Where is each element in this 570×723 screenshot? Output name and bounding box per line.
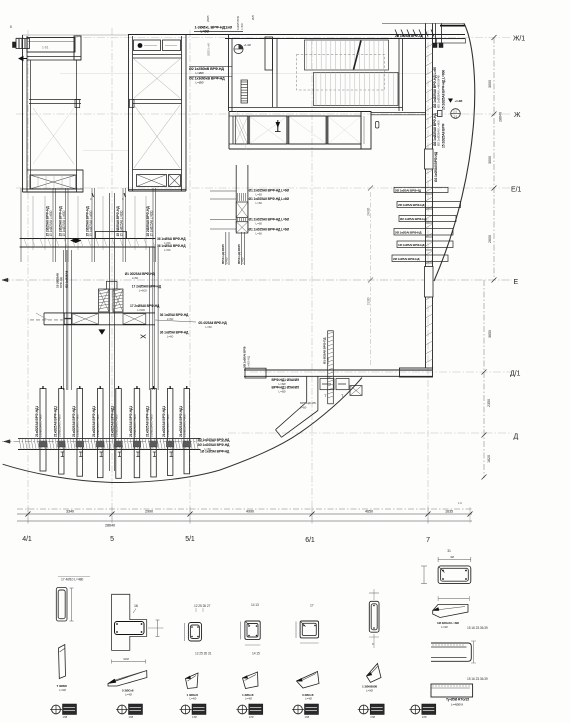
approval stamp 1 circle — [52, 705, 61, 714]
svg-text:17 2хØ5АII ВРФ-НД: 17 2хØ5АII ВРФ-НД — [132, 285, 162, 289]
stair lower flight — [314, 73, 399, 106]
lift shaft A mid wall — [29, 99, 81, 101]
svg-text:12 25 26 31: 12 25 26 31 — [195, 652, 212, 656]
room divider 3 — [326, 116, 328, 144]
svg-text:36 1хØ5АI ВРФ-НД: 36 1хØ5АI ВРФ-НД — [160, 313, 189, 317]
lift shaft A bottom outer lines — [23, 188, 84, 190]
detail 2 rebar loop — [115, 622, 145, 635]
corridor wall to axis 7 — [371, 112, 426, 114]
svg-text:Е/1: Е/1 — [511, 187, 521, 194]
lift shaft A right lower box — [77, 170, 84, 192]
lift shaft B bottom lines — [129, 189, 187, 191]
svg-text:L=4ØØ 8: L=4ØØ 8 — [451, 703, 463, 707]
svg-text:15 1хØ25АII L=600: 15 1хØ25АII L=600 — [120, 210, 124, 236]
stair hall small left box — [265, 37, 273, 70]
rebar verticals through beam E/1-E zone — [20, 188, 22, 262]
grade beam centreline dashed — [2, 441, 232, 443]
room panel 2 with anchor — [250, 116, 287, 144]
stair hall bottom wall — [229, 107, 403, 109]
svg-text:L=600: L=600 — [139, 289, 147, 293]
svg-text:L=ØØ: L=ØØ — [196, 81, 205, 85]
main transverse beam at y242 — [20, 238, 156, 240]
svg-text:193Ø: 193Ø — [367, 297, 371, 305]
svg-text:Ø1 Ø25АII ВРФ-НД: Ø1 Ø25АII ВРФ-НД — [198, 321, 227, 325]
approval stamp 7 block — [422, 704, 436, 715]
svg-text:2Ø 1хØ5АI ВРФ-4Д: 2Ø 1хØ5АI ВРФ-4Д — [395, 188, 422, 192]
detail 2 dims right — [157, 620, 159, 636]
grade beam dark patches — [39, 441, 47, 447]
svg-text:L=600: L=600 — [137, 308, 145, 312]
svg-text:1хØ25 ВРФ: 1хØ25 ВРФ — [236, 16, 240, 30]
left arrow at grade beam — [4, 440, 10, 444]
lintel beam at Zh/1 right of wall 7 — [437, 39, 466, 43]
svg-text:5/1: 5/1 — [185, 536, 195, 543]
svg-text:14 13: 14 13 — [251, 603, 259, 607]
svg-text:2Ø 1хØ5АI ВРФ-4Д: 2Ø 1хØ5АI ВРФ-4Д — [395, 34, 423, 38]
svg-text:1Ø 1хØ5АI ВРФ-НД: 1Ø 1хØ5АI ВРФ-НД — [398, 243, 425, 247]
dark tick blocks under top wall right — [433, 43, 437, 48]
section mark circle top — [234, 44, 243, 53]
pile P9 — [184, 389, 190, 474]
detail 4 section — [245, 621, 260, 639]
svg-text:2Ø 1хØ5АI ВРФ-НД: 2Ø 1хØ5АI ВРФ-НД — [395, 231, 422, 235]
room divider 1 — [247, 116, 249, 144]
svg-text:7: 7 — [426, 537, 430, 544]
svg-text:17: 17 — [310, 604, 314, 608]
tick x mark below beam2 — [141, 335, 146, 339]
wall axis 7 white column at Zh — [425, 149, 434, 169]
grade beam over piles — [18, 437, 201, 439]
right dimension chain line lower — [483, 280, 485, 478]
svg-text:3000: 3000 — [488, 156, 492, 164]
E row centreline arrow left — [2, 278, 8, 282]
detail 7 dim above plate — [438, 598, 469, 600]
tick marks below shafts — [92, 193, 94, 197]
svg-text:2Ø 1хØ25АII ВРФ-НД: 2Ø 1хØ25АII ВРФ-НД — [198, 443, 230, 447]
beam2 left leader dashes — [30, 319, 63, 321]
approval stamp 1 block — [63, 704, 77, 715]
grid axis 6/1 vertical — [311, 38, 313, 524]
svg-text:21хØ25АII L=600: 21хØ25АII L=600 — [166, 414, 170, 437]
svg-text:6/1: 6/1 — [305, 537, 315, 544]
lift shaft B left wall — [128, 35, 130, 191]
approval stamp 3 block — [192, 704, 206, 715]
I marks under grade beam — [61, 452, 65, 457]
svg-text:17Ø: 17Ø — [192, 715, 197, 719]
thin parapet line top right — [382, 22, 465, 24]
lintel bar row 5 — [397, 241, 453, 248]
grid row D horizontal — [228, 432, 512, 434]
svg-text:2Ø25: 2Ø25 — [206, 15, 210, 22]
svg-text:21хØ25АII L=600: 21хØ25АII L=600 — [133, 414, 137, 437]
beam2 X cell right — [123, 314, 146, 325]
right wall pair x149-158 — [148, 247, 150, 390]
grid axis 5/1 vertical — [189, 30, 191, 524]
dimension tick — [492, 35, 497, 40]
room panel 3 — [289, 116, 326, 144]
room divider 2 — [287, 116, 289, 144]
svg-text:36 1хØ5АI ВРФ-НД: 36 1хØ5АI ВРФ-НД — [157, 244, 186, 248]
approval stamp 3 circle — [181, 705, 190, 714]
bottom dim line B — [17, 513, 472, 515]
detail 7 big section — [438, 566, 471, 584]
lift shaft A top right wall box — [74, 36, 81, 60]
svg-text:Ø2 1х3ØØхВ ВРФ-НД: Ø2 1х3ØØхВ ВРФ-НД — [189, 76, 225, 80]
svg-text:16: 16 — [134, 604, 138, 608]
bottom dim line A dashed — [17, 508, 472, 510]
detail 4 dims — [240, 622, 242, 640]
stair hall right wall — [398, 39, 400, 112]
boxes right of SE wall — [320, 379, 334, 390]
svg-text:2Ø 1хØ5АI ВРФ-НД: 2Ø 1хØ5АI ВРФ-НД — [398, 203, 425, 207]
wall axis 7 double line — [425, 39, 427, 369]
construction line y73 — [60, 73, 430, 75]
grid axis 5 vertical — [111, 28, 113, 524]
svg-text:17 2хØ5АII ВРФ-НД: 17 2хØ5АII ВРФ-НД — [130, 304, 160, 308]
svg-text:21хØ25АII L=600: 21хØ25АII L=600 — [183, 414, 187, 437]
svg-text:+1.3Ø: +1.3Ø — [455, 99, 464, 103]
svg-text:Ø2 1хØ25АII: Ø2 1хØ25АII — [65, 271, 69, 288]
svg-text:15 1хØ25АII L=600: 15 1хØ25АII L=600 — [150, 210, 154, 236]
svg-text:L=60: L=60 — [256, 193, 263, 197]
svg-text:21хØ25АII L=600: 21хØ25АII L=600 — [57, 414, 61, 437]
pile P6 — [134, 389, 140, 478]
extra light rebar verticals — [32, 196, 34, 250]
detail 7 mini dim above — [438, 559, 471, 561]
pile P4 — [97, 389, 103, 478]
interior dimension line x370 — [370, 192, 372, 366]
svg-text:24ØØ: 24ØØ — [367, 207, 371, 216]
svg-text:6ØØ: 6ØØ — [123, 657, 130, 661]
detail 6 dims above — [369, 592, 379, 594]
svg-text:L=60: L=60 — [205, 325, 212, 329]
detail 7 u-channel — [431, 643, 471, 661]
beam centre box above — [95, 232, 126, 239]
svg-text:Ø2 1хØ5АI ВРФ-НД: Ø2 1хØ5АI ВРФ-НД — [400, 217, 427, 221]
detail 2 bent plate — [108, 671, 147, 687]
svg-text:1Ø 1хØ5АI ВРФ-НД: 1Ø 1хØ5АI ВРФ-НД — [200, 450, 230, 454]
lift shaft B counterweight dot — [138, 43, 143, 48]
svg-text:15 2Ø25АII ВРФ: 15 2Ø25АII ВРФ — [442, 123, 446, 148]
column head white box — [107, 281, 118, 289]
pier lower vertical rebar pair 2 — [241, 232, 243, 265]
svg-text:2350: 2350 — [487, 399, 491, 407]
stair upper flight — [305, 40, 389, 70]
pile P1 — [40, 389, 46, 472]
beam at D/1 level — [244, 369, 433, 371]
detail 6 bar shape — [367, 664, 382, 683]
dimension tick — [492, 186, 497, 191]
svg-text:3Ø 1хØ25АII ВРФ-НД: 3Ø 1хØ25АII ВРФ-НД — [198, 438, 230, 442]
svg-text:36 1хØ5АI ВРФ-НД: 36 1хØ5АI ВРФ-НД — [157, 237, 186, 241]
approval stamp 5 block — [305, 704, 319, 715]
grid row Zh horizontal — [16, 113, 512, 115]
diagonal wall along curve SE — [276, 402, 307, 430]
svg-text:L=ØØ: L=ØØ — [196, 71, 205, 75]
beam2 X cell left — [72, 314, 98, 325]
pile P8 — [167, 389, 173, 476]
svg-text:L=9Ø: L=9Ø — [59, 688, 67, 692]
grid axis 7 vertical — [427, 30, 429, 524]
svg-text:2Ø25 L=60: 2Ø25 L=60 — [207, 42, 211, 56]
grid row Zh/1 horizontal — [16, 37, 512, 39]
bottom dim ticks — [26, 512, 31, 517]
service stair ladder — [241, 80, 248, 103]
svg-text:+1.3Ø: +1.3Ø — [244, 43, 252, 47]
grid row E horizontal — [2, 279, 512, 281]
approval stamp 6 block — [370, 704, 384, 715]
dark wall stub above Zh/1 — [440, 25, 465, 27]
svg-text:L=60: L=60 — [256, 222, 263, 226]
svg-text:Ж: Ж — [514, 112, 521, 119]
svg-text:17 4Ø10 L=480: 17 4Ø10 L=480 — [61, 578, 83, 582]
svg-text:L=60: L=60 — [256, 232, 263, 236]
approval stamp 4 block — [249, 704, 263, 715]
svg-text:21хØ25АII L=600: 21хØ25АII L=600 — [96, 414, 100, 437]
room band right end wall — [361, 112, 371, 150]
lift shaft B top inner boxes — [134, 40, 161, 51]
small square left of section circle — [438, 111, 443, 117]
approval stamp 2 circle — [118, 705, 127, 714]
top wall main double line — [128, 34, 465, 36]
svg-text:14 15: 14 15 — [252, 652, 260, 656]
detail 2 dim below — [112, 661, 146, 663]
svg-text:L=600 НД: L=600 НД — [246, 356, 250, 368]
approval stamp 6 circle — [359, 705, 368, 714]
svg-text:L=4Ø: L=4Ø — [305, 697, 313, 701]
svg-text:Ø1 2Ø25АII ВРФ-НД: Ø1 2Ø25АII ВРФ-НД — [125, 272, 156, 276]
pile P3 — [77, 389, 83, 477]
svg-text:21хØ25АII L=600: 21хØ25АII L=600 — [39, 414, 43, 437]
detail 6 dims below — [369, 636, 379, 638]
svg-text:3650: 3650 — [488, 330, 492, 338]
detail 1 dim — [71, 588, 73, 621]
lintel bar row 6 — [392, 255, 448, 262]
small X box at SE corner — [350, 386, 362, 396]
anchor symbol in panel 2 — [276, 122, 281, 128]
svg-text:Д/1: Д/1 — [510, 371, 520, 378]
curved facade wall arc lower segment — [3, 378, 362, 483]
svg-text:Ø25: Ø25 — [251, 14, 255, 20]
beam2 anchor mark dark — [98, 329, 105, 334]
svg-text:3000: 3000 — [488, 80, 492, 88]
svg-text:15 1хØ25АII L=600: 15 1хØ25АII L=600 — [89, 210, 93, 236]
wall ticks crossing lintel rows — [426, 193, 433, 195]
svg-text:15 16 23.36.39: 15 16 23.36.39 — [467, 626, 488, 630]
pile P2 — [59, 389, 64, 475]
svg-text:21хØ25АII L=600: 21хØ25АII L=600 — [149, 414, 153, 437]
lift shaft B cell X lower — [134, 105, 180, 168]
svg-text:L=9Ø: L=9Ø — [366, 689, 374, 693]
beam2 left end boxes — [64, 313, 71, 318]
top wall line light segment over shafts — [22, 34, 128, 36]
svg-text:17Ø: 17Ø — [63, 715, 68, 719]
detail 2 concrete tee — [112, 594, 147, 650]
svg-text:5: 5 — [110, 536, 114, 543]
detail 7 long bar — [431, 684, 473, 697]
detail 5 section — [300, 621, 319, 638]
wall axis 7 hatch ticks — [426, 44, 433, 48]
bottom dim line C — [17, 520, 472, 522]
approval stamp 7 circle — [411, 705, 420, 714]
wall hatch ticks on top wall — [395, 30, 398, 37]
pier lower vertical rebar pair 1 — [225, 232, 227, 265]
lift shaft A top beam band — [27, 38, 75, 53]
lift shaft A side tab — [75, 99, 80, 107]
svg-text:17Ø: 17Ø — [249, 715, 254, 719]
approval stamp 4 circle — [238, 705, 247, 714]
svg-text:L=4Ø: L=4Ø — [190, 697, 198, 701]
svg-text:L=6Ø: L=6Ø — [279, 390, 287, 394]
room panel 4 — [328, 116, 361, 144]
svg-text:Ø2 1хØ5АII ВРФ-НД: Ø2 1хØ5АII ВРФ-НД — [434, 151, 438, 182]
svg-text:ВРФ-НД: ВРФ-НД — [59, 277, 63, 288]
svg-text:17Ø: 17Ø — [370, 715, 375, 719]
pier X box 1 — [236, 202, 248, 218]
svg-text:L=4Ø: L=4Ø — [441, 625, 448, 629]
svg-text:Ø2 1хØ25АII L=600: Ø2 1хØ25АII L=600 — [437, 120, 441, 146]
dimension tick — [492, 112, 497, 117]
lift shaft B bottom band boxes — [133, 169, 182, 171]
pile P7 — [151, 389, 157, 477]
detail 7 plate shape — [433, 605, 468, 618]
lift shaft B mid wall — [133, 99, 182, 101]
svg-text:2990: 2990 — [145, 510, 153, 514]
svg-text:L=60: L=60 — [225, 257, 229, 264]
pier hatch bands — [237, 193, 239, 201]
vertical hatched bar x327-333 — [328, 331, 334, 404]
wall axis 7 white column at E — [425, 267, 434, 298]
detail 7 u-channel dim — [473, 641, 475, 663]
svg-text:L=60: L=60 — [256, 201, 263, 205]
svg-text:1635: 1635 — [445, 510, 453, 514]
pier wall verticals x236-248 — [235, 165, 237, 232]
svg-text:L=60: L=60 — [167, 335, 174, 339]
lift shaft B right wall — [181, 36, 183, 191]
beam2 at y318 outline — [44, 312, 155, 314]
lift shaft A lower cell diagonal — [33, 108, 74, 164]
section circle at Zh — [451, 109, 461, 119]
detail 1 bar shape — [59, 645, 66, 679]
svg-text:L=6Ø: L=6Ø — [300, 406, 306, 410]
right dimension chain line upper — [493, 38, 495, 281]
dimension tick — [482, 370, 487, 375]
dimension tick — [482, 475, 487, 480]
detail 4 bar shape — [243, 672, 259, 689]
svg-text:Д: Д — [514, 434, 519, 441]
detail 6 section — [369, 601, 379, 632]
detail 3 dims — [184, 623, 186, 641]
grid axis 4/1 vertical — [27, 30, 29, 524]
svg-text:15 1хØ25АII L=600: 15 1хØ25АII L=600 — [62, 210, 66, 236]
svg-text:ВРФ-НД1 Ø5: ВРФ-НД1 Ø5 — [300, 401, 316, 405]
lift shaft A interior vertical walls — [30, 60, 32, 189]
lift shaft A upper interior wall — [27, 56, 81, 58]
svg-text:L=60: L=60 — [132, 276, 139, 280]
svg-text:L=60: L=60 — [164, 248, 171, 252]
svg-text:15 1хØ25АII L=600: 15 1хØ25АII L=600 — [49, 210, 53, 236]
lintel bar row 2 — [397, 202, 461, 208]
approval stamp 2 block — [129, 704, 143, 715]
level flag at Zh row — [448, 99, 453, 103]
svg-text:15 16 23.36.39: 15 16 23.36.39 — [467, 677, 488, 681]
lift shaft B cell X upper — [134, 59, 180, 98]
svg-text:17Ø: 17Ø — [129, 715, 134, 719]
svg-text:31: 31 — [447, 549, 451, 553]
wall 7 verticals up to parapet — [425, 23, 427, 38]
svg-text:4650: 4650 — [365, 510, 373, 514]
svg-text:Ж/1: Ж/1 — [513, 36, 525, 43]
svg-text:36 1хØ5АI ВРФ-НД: 36 1хØ5АI ВРФ-НД — [160, 331, 189, 335]
dimension tick — [492, 278, 497, 283]
beam D/1 end cap — [400, 368, 433, 377]
detail 3 section — [188, 623, 201, 642]
lift shaft A door arrow — [19, 57, 27, 61]
svg-text:17Ø: 17Ø — [422, 715, 427, 719]
lintel bar row 1 at E/1 — [394, 187, 448, 192]
svg-text:15 2Ø25АII ВРФ-НД L=600: 15 2Ø25АII ВРФ-НД L=600 — [442, 70, 446, 110]
detail 5 dims — [295, 622, 297, 638]
svg-text:3340: 3340 — [66, 510, 74, 514]
leader lines to stair wall — [189, 65, 232, 67]
svg-text:4/1: 4/1 — [22, 536, 32, 543]
lintel bar row 4 — [394, 229, 453, 236]
pile P5 — [116, 389, 122, 479]
svg-text:L=4Ø: L=4Ø — [245, 697, 253, 701]
wall below D/1 beam — [306, 376, 308, 402]
left wall pair x63-71 — [62, 250, 64, 390]
lift shaft B side tab — [130, 99, 135, 107]
small fitting in corridor — [376, 122, 379, 129]
lintel bar row 3 — [399, 216, 456, 222]
svg-text:21хØ25АII L=600: 21хØ25АII L=600 — [76, 414, 80, 437]
svg-text:L=600: L=600 — [240, 23, 244, 30]
svg-text:Е: Е — [514, 279, 519, 286]
stair dashed landing outline — [297, 55, 385, 91]
stair hall left wall — [228, 35, 230, 112]
room band bottom wall — [229, 143, 361, 145]
svg-text:28640: 28640 — [499, 112, 503, 122]
svg-text:4990: 4990 — [246, 510, 254, 514]
pier tie lines left — [210, 190, 236, 192]
svg-text:L=60: L=60 — [240, 257, 244, 264]
svg-text:L=60: L=60 — [326, 357, 330, 364]
lift shaft A bottom band — [27, 169, 83, 171]
lift shaft A left wall — [22, 35, 24, 192]
lift shaft A left margin dark stub — [13, 42, 17, 48]
axis5 wall vertical pair — [109, 193, 111, 471]
extra vertical pair near arc spring — [435, 23, 437, 47]
svg-text:Ø2 1х25ØхВ ВРФ-НД: Ø2 1х25ØхВ ВРФ-НД — [189, 67, 224, 71]
room band left wall — [228, 112, 230, 150]
svg-text:21хØ25АII L=600: 21хØ25АII L=600 — [114, 414, 118, 437]
stair up-line diagonal — [354, 41, 362, 70]
detail 3 bar shape — [186, 673, 199, 689]
column hatched flanks — [98, 289, 109, 312]
grid row E/1 horizontal — [16, 187, 512, 189]
lift shaft A left end hatched block — [16, 39, 30, 49]
svg-text:1820: 1820 — [487, 455, 491, 463]
dimension tick — [482, 433, 487, 438]
svg-text:Ту-Ø5Ø RТG/15: Ту-Ø5Ø RТG/15 — [446, 698, 469, 702]
svg-text:17Ø: 17Ø — [305, 715, 310, 719]
detail 1 section — [56, 588, 67, 622]
room panel 1 narrow hatched — [235, 116, 247, 144]
svg-text:1 К: 1 К — [458, 501, 462, 505]
detail 7 left dim — [423, 566, 425, 584]
svg-text:12 25 26 27: 12 25 26 27 — [194, 604, 211, 608]
svg-text:28640: 28640 — [105, 524, 115, 528]
